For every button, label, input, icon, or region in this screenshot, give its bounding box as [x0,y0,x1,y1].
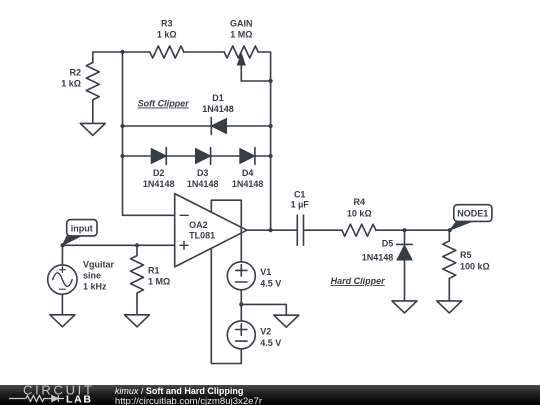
wire: R2 top to R3 left (top net) [93,52,150,63]
wire: GAIN right to rail corner [258,52,270,81]
svg-text:V2: V2 [260,326,271,336]
node NODE1 flag [450,221,472,230]
junction: input node [60,243,64,247]
svg-text:R3: R3 [161,19,173,29]
svg-text:1 µF: 1 µF [291,200,310,210]
junction: D5 top [402,228,406,232]
svg-text:1 kHz: 1 kHz [83,282,107,292]
wire: right rail down [270,81,272,230]
voltage source V1 circle [227,262,255,290]
wire: V1 to V2 [240,290,242,321]
svg-text:D3: D3 [197,168,209,178]
svg-text:R4: R4 [354,197,366,207]
svg-text:TL081: TL081 [189,231,215,241]
resistor R5 [443,230,456,301]
svg-text:1N4148: 1N4148 [202,104,234,114]
wire: R3 to GAIN [184,51,224,53]
Vguitar minus [59,288,65,290]
wire: R4 to NODE1 [376,229,450,231]
svg-text:D4: D4 [242,168,254,178]
wire: mid node to ground [241,304,286,315]
ground (R2) [80,123,105,135]
svg-text:R5: R5 [460,250,472,260]
svg-text:1N4148: 1N4148 [143,179,175,189]
diode D5 (pointing up) [404,230,406,244]
svg-text:sine: sine [83,271,101,281]
svg-text:4.5 V: 4.5 V [260,279,281,289]
svg-text:C1: C1 [294,190,306,200]
wire: D5 to ground [404,260,406,301]
op-amp minus symbol [180,214,188,216]
junction: R2/R3 top [120,50,124,54]
capacitor C1 plates [297,215,303,245]
junction: wiper right rail [269,79,273,83]
CircuitLab logo [0,385,110,405]
V2 minus [236,340,247,342]
wire: wiper to right rail [241,80,270,82]
junction: NODE1 [448,228,452,232]
svg-text:1 kΩ: 1 kΩ [61,79,81,89]
voltage source Vguitar circle [48,265,77,294]
wire: C1 to R4 [304,229,342,231]
diode D3 [210,148,212,165]
ground (R1) [125,315,150,327]
op-amp V+ pin wire [211,200,241,262]
svg-text:1N4148: 1N4148 [232,179,264,189]
junction: D4 right [269,154,273,158]
op-amp plus symbol [180,241,188,249]
wire: D2-D4 row [123,155,271,157]
wire: input node to op-amp plus [63,244,175,246]
wire: input node to source [61,245,63,265]
svg-text:1N4148: 1N4148 [362,252,394,262]
resistor R4 [342,224,376,236]
svg-text:10 kΩ: 10 kΩ [347,208,372,218]
svg-text:1N4148: 1N4148 [187,179,219,189]
potentiometer GAIN zigzag [224,46,258,58]
resistor R2 [86,63,99,124]
junction: D2 left [120,154,124,158]
diode D4 [254,148,256,165]
svg-text:Vguitar: Vguitar [83,259,115,269]
svg-text:R2: R2 [69,68,81,78]
svg-text:100 kΩ: 100 kΩ [460,262,490,272]
op-amp V- pin wire [211,248,241,363]
V1 minus [236,281,247,283]
footer title text [115,386,244,396]
resistor R3 [150,46,184,58]
junction: D1 left [120,124,124,128]
junction: output rail [269,228,273,232]
svg-text:R1: R1 [148,265,160,275]
svg-text:D1: D1 [212,93,224,103]
junction: D1 right [269,124,273,128]
footer url text [115,396,262,405]
node input flag [63,236,82,245]
ground (supply mid) [274,315,299,327]
Vguitar plus [60,267,66,273]
svg-text:1 kΩ: 1 kΩ [157,30,177,40]
svg-text:1 MΩ: 1 MΩ [230,30,252,40]
ground (R5) [437,301,462,313]
ground (D5) [392,301,417,313]
svg-text:Soft Clipper: Soft Clipper [138,99,189,109]
svg-text:OA2: OA2 [189,220,208,230]
svg-text:D5: D5 [382,238,394,248]
svg-text:4.5 V: 4.5 V [260,338,281,348]
V2 plus [236,324,247,335]
diode D1 (pointing left) [210,118,212,135]
svg-text:LAB: LAB [66,393,93,405]
junction: supply mid [239,302,243,306]
wire: left rail down to op-amp minus [123,52,175,215]
wire: op-amp output to C1 [247,229,297,231]
junction: R1 top [135,243,139,247]
potentiometer GAIN wiper arrow [240,65,242,81]
svg-text:Hard Clipper: Hard Clipper [331,276,386,286]
op-amp U1 triangle [175,194,247,267]
svg-text:input: input [71,224,93,234]
voltage source V2 circle [227,321,255,349]
diode D2 [165,148,167,165]
svg-text:1 MΩ: 1 MΩ [148,276,170,286]
ground (Vguitar) [50,315,75,327]
wire: D1 row [123,125,271,127]
footer bar [0,385,540,405]
wire: source to ground [61,294,63,314]
svg-text:NODE1: NODE1 [457,209,488,219]
svg-text:GAIN: GAIN [230,19,253,29]
V1 plus [236,265,247,276]
resistor R1 [131,245,144,314]
svg-text:D2: D2 [153,168,165,178]
svg-text:V1: V1 [260,267,271,277]
Vguitar sine symbol [53,273,73,287]
